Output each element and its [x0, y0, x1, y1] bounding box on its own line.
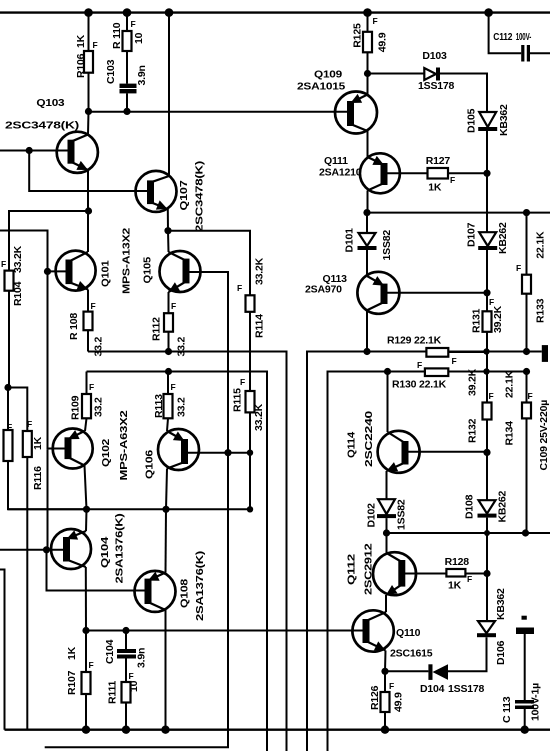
- wire Q105 collector: [167, 231, 170, 252]
- resistor R107 1K: [66, 631, 94, 730]
- resistor R134 22.1K: [504, 370, 533, 533]
- node junction Q104 collector / R107: [82, 627, 89, 634]
- wire Q107 emitter node to R114: [168, 231, 250, 296]
- resistor R129 22.1K: [387, 335, 487, 367]
- node junction Q114 collector on line D: [384, 368, 391, 375]
- svg-text:100V-: 100V-: [516, 32, 532, 43]
- wire top supply rail: [0, 11, 550, 13]
- capacitor C109 25V-220u plate: [538, 345, 550, 470]
- wire D102 node line to right edge: [387, 532, 550, 534]
- node junction rail/Q107 collector column: [165, 8, 174, 17]
- resistor R106 1K: [75, 13, 98, 112]
- svg-text:2SC2240: 2SC2240: [363, 411, 375, 467]
- resistor unlabeled fusible: [4, 388, 13, 462]
- svg-text:R104: R104: [12, 281, 24, 306]
- wire D105 node to D107: [486, 173, 488, 232]
- svg-text:Q105: Q105: [142, 257, 154, 284]
- resistor R130 22.1K: [392, 360, 448, 391]
- wire base column Q102-Q104: [47, 449, 49, 550]
- capacitor C103 3.9n: [105, 51, 148, 111]
- node junction Q107 emitter / Q105 collector: [164, 227, 171, 234]
- svg-text:1K: 1K: [66, 646, 78, 660]
- svg-text:R128: R128: [445, 556, 470, 568]
- svg-text:D106: D106: [495, 640, 507, 665]
- wire Q113 collector to line B: [366, 310, 368, 351]
- wire Q101 base: [48, 270, 67, 272]
- svg-text:F: F: [129, 671, 134, 681]
- transistor Q105 MPS-A13X2 (mirrored): [142, 251, 201, 292]
- wire Q107 emitter: [167, 209, 169, 231]
- node junction R128 / D106 anode: [483, 570, 490, 577]
- wire Q106 base line: [185, 452, 251, 454]
- svg-text:100V-1µ: 100V-1µ: [530, 683, 542, 721]
- svg-text:C112: C112: [493, 32, 513, 43]
- svg-text:F: F: [516, 263, 521, 273]
- node junction Q102 collector / Q104 emitter: [83, 506, 90, 513]
- node junction diode column on D102 line: [484, 530, 490, 536]
- svg-text:1K: 1K: [75, 34, 87, 48]
- wire Q104 emitter: [85, 509, 88, 531]
- svg-text:33.2: 33.2: [176, 397, 188, 417]
- wire R113 bottom to Q106 emitter: [167, 418, 168, 431]
- wire D103 anode line: [368, 73, 425, 75]
- wire Q114 emitter to D102: [386, 471, 388, 499]
- wire R127 to D105/D107 node: [448, 172, 487, 174]
- transistor Q114 2SC2240: [346, 411, 420, 473]
- svg-text:39.2K: 39.2K: [492, 305, 504, 333]
- wire Q111 base to R127: [384, 172, 428, 174]
- svg-text:R126: R126: [369, 685, 381, 710]
- svg-text:F: F: [450, 175, 455, 185]
- node junction rail / C112: [484, 8, 493, 17]
- node junction Q108 collector rail: [161, 726, 169, 734]
- capacitor C104 3.9n: [104, 631, 148, 683]
- svg-text:2SC3478(K): 2SC3478(K): [194, 161, 206, 232]
- svg-text:C104: C104: [104, 639, 116, 664]
- svg-text:R129 22.1K: R129 22.1K: [387, 335, 442, 347]
- wire mirror line A (R108/R112 bottoms): [88, 352, 287, 751]
- wire Q101 emitter to R108: [88, 290, 96, 312]
- wire Q105 base corner: [186, 271, 189, 273]
- resistor R104: [1, 245, 24, 387]
- capacitor C113 100V-1u: [501, 616, 542, 730]
- node junction Q103 base divider: [26, 147, 33, 154]
- wire D104 cathode line: [385, 670, 428, 672]
- node junction R133 column on line B: [523, 348, 530, 355]
- resistor R131 39.2K: [471, 293, 505, 403]
- svg-text:Q107: Q107: [178, 180, 190, 210]
- wire Q112 emitter to Q110 collector: [385, 595, 387, 612]
- svg-text:49.9: 49.9: [377, 32, 389, 52]
- svg-text:MPS-A13X2: MPS-A13X2: [121, 228, 133, 294]
- svg-text:39.2K: 39.2K: [467, 368, 479, 396]
- svg-text:2SA1015: 2SA1015: [297, 81, 345, 93]
- svg-text:F: F: [452, 356, 457, 366]
- resistor R113 33.2: [153, 372, 188, 419]
- wire Q102 base: [48, 448, 66, 450]
- svg-text:KB362: KB362: [495, 588, 507, 620]
- svg-text:2SC1615: 2SC1615: [390, 648, 433, 660]
- node junction R106/C103/Q103 collector: [85, 108, 92, 115]
- wire second bottom line: [45, 272, 228, 747]
- svg-text:F: F: [237, 283, 242, 293]
- svg-text:10: 10: [128, 680, 140, 692]
- svg-text:F: F: [417, 360, 422, 370]
- resistor R126 49.9: [369, 671, 405, 729]
- svg-text:R113: R113: [153, 394, 165, 418]
- svg-text:F: F: [489, 391, 494, 401]
- wire left vertical to bottom rail: [0, 570, 5, 730]
- svg-text:2SA970: 2SA970: [305, 284, 342, 296]
- diode D104 1SS178: [420, 664, 485, 695]
- resistor R108 33.2: [68, 312, 105, 357]
- svg-text:R125: R125: [352, 23, 364, 48]
- svg-text:Q106: Q106: [144, 450, 156, 479]
- svg-text:Q114: Q114: [346, 432, 358, 458]
- svg-text:Q109: Q109: [314, 69, 342, 81]
- svg-text:C109: C109: [538, 446, 550, 471]
- wire Q106 collector: [166, 469, 167, 510]
- resistor R133 22.1K: [516, 213, 547, 352]
- svg-text:F: F: [373, 16, 378, 26]
- svg-text:R107: R107: [66, 670, 78, 695]
- transistor Q102 MPS-A63X2: [53, 410, 130, 480]
- wire Q107 collector column: [168, 13, 170, 176]
- svg-text:49.9: 49.9: [393, 692, 405, 712]
- svg-text:F: F: [467, 574, 472, 584]
- node junction C113 bottom rail: [521, 726, 529, 734]
- resistor R114 33.2K: [237, 257, 266, 391]
- svg-text:1SS178: 1SS178: [448, 683, 485, 695]
- diode D108 KB262: [464, 452, 509, 573]
- wire Q109 collector to Q111: [367, 131, 369, 157]
- wire left edge input Q104 base: [0, 549, 64, 551]
- resistor R112 33.2: [151, 313, 188, 356]
- node junction output line / R133: [523, 209, 530, 216]
- wire D106 cathode to D104: [448, 637, 487, 671]
- svg-text:R115: R115: [232, 388, 244, 412]
- transistor Q113 2SA970: [305, 272, 399, 314]
- transistor Q111 2SA1210: [319, 153, 400, 193]
- svg-text:33.2: 33.2: [93, 337, 105, 357]
- svg-text:33.2K: 33.2K: [254, 257, 266, 285]
- svg-text:KB262: KB262: [497, 490, 509, 522]
- svg-text:F: F: [89, 382, 94, 392]
- node junction Q101 base: [44, 268, 51, 275]
- node junction Q103 emitter / R104: [85, 207, 92, 214]
- wire Q103 collector: [87, 111, 90, 134]
- svg-text:F: F: [27, 419, 32, 429]
- transistor Q108 2SA1376(K): [135, 551, 207, 621]
- svg-text:D107: D107: [466, 222, 478, 247]
- wire Q103 emitter to Q101: [87, 170, 89, 252]
- svg-text:Q102: Q102: [100, 439, 112, 467]
- wire bottom rail: [5, 729, 550, 731]
- node junction Q113 collector on line B: [363, 348, 370, 355]
- wire R116 top corner: [8, 388, 27, 432]
- node junction C103 bottom: [123, 108, 130, 115]
- wire Q103 base input from left edge: [0, 150, 68, 152]
- svg-text:F: F: [171, 301, 176, 311]
- svg-text:R131: R131: [471, 308, 483, 333]
- svg-text:10: 10: [133, 32, 145, 44]
- svg-text:25V-220µ: 25V-220µ: [538, 400, 550, 444]
- svg-text:D103: D103: [422, 50, 447, 62]
- svg-text:33.2K: 33.2K: [12, 245, 24, 273]
- transistor Q104 2SA1376(K): [51, 514, 126, 584]
- wire Q111 collector: [367, 191, 369, 213]
- wire feedback line D: [328, 372, 527, 751]
- svg-text:F: F: [89, 660, 94, 670]
- svg-text:Q112: Q112: [345, 554, 357, 585]
- svg-text:R 108: R 108: [68, 313, 80, 340]
- svg-text:D105: D105: [466, 108, 478, 133]
- svg-text:F: F: [389, 681, 394, 691]
- resistor R115 33.2K: [232, 377, 266, 509]
- diode D105 KB362: [466, 104, 511, 173]
- transistor Q110 2SC1615: [352, 610, 432, 659]
- node junction Q106 collector / Q108 emitter: [162, 506, 169, 513]
- svg-text:R130 22.1K: R130 22.1K: [392, 379, 447, 391]
- svg-text:22.1K: 22.1K: [535, 231, 547, 259]
- wire left edge input to base column: [0, 231, 48, 272]
- transistor Q112 2SC2912: [345, 543, 416, 595]
- svg-text:Q111: Q111: [324, 155, 348, 167]
- svg-text:2SA1376(K): 2SA1376(K): [194, 551, 206, 621]
- wire feedback line B: [307, 352, 542, 751]
- node junction R127 / D105 cathode: [483, 170, 490, 177]
- svg-text:MPS-A63X2: MPS-A63X2: [118, 410, 130, 480]
- diode D106 KB362: [477, 574, 507, 666]
- svg-text:Q101: Q101: [100, 260, 112, 287]
- wire Q113 base to D107 node: [384, 292, 487, 294]
- node junction Q105/Q106 base column at Q106 base: [224, 449, 231, 456]
- wire base column to Q108 base: [47, 550, 145, 591]
- node junction R132 / Q114 base: [483, 449, 490, 456]
- resistor R132 39.2K: [467, 368, 494, 452]
- svg-text:F: F: [1, 259, 6, 269]
- svg-text:F: F: [131, 19, 136, 29]
- wire Q104 collector: [85, 567, 87, 631]
- wire Q103 base to Q107 base: [29, 151, 147, 192]
- svg-text:F: F: [93, 40, 98, 50]
- svg-text:3.9n: 3.9n: [136, 65, 148, 85]
- svg-text:1SS82: 1SS82: [396, 499, 408, 530]
- resistor R116 1K: [7, 419, 44, 730]
- svg-text:3.9n: 3.9n: [136, 648, 148, 668]
- wire Q108 collector to bottom rail: [165, 610, 167, 730]
- svg-text:D101: D101: [344, 228, 356, 253]
- wire Q112 base to R128: [402, 573, 447, 575]
- svg-text:R106: R106: [75, 53, 87, 78]
- transistor Q109 2SA1015: [297, 69, 377, 134]
- node junction rail/R125: [363, 8, 372, 17]
- svg-text:F: F: [528, 391, 533, 401]
- node junction R111 bottom rail: [122, 726, 130, 734]
- resistor R125 49.9: [352, 13, 389, 74]
- wire R104 top to Q103 emitter node: [9, 211, 89, 271]
- wire bias line to Q110 base: [86, 630, 366, 632]
- svg-text:33.2K: 33.2K: [253, 403, 265, 431]
- node junction R107 bottom rail: [82, 726, 90, 734]
- svg-text:F: F: [171, 382, 176, 392]
- svg-text:R116: R116: [32, 466, 44, 490]
- svg-text:1K: 1K: [448, 580, 462, 592]
- svg-text:C103: C103: [105, 59, 117, 84]
- svg-text:2SA1210: 2SA1210: [319, 167, 362, 179]
- svg-text:1SS178: 1SS178: [418, 80, 455, 92]
- wire Q114 base to R132: [405, 451, 487, 453]
- svg-text:1K: 1K: [32, 436, 44, 450]
- node junction Q110 emitter / D104 / R126: [381, 668, 388, 675]
- svg-text:33.2: 33.2: [176, 337, 188, 357]
- transistor Q106 MPS-A63X2 (mirrored): [144, 429, 200, 479]
- svg-text:F: F: [489, 297, 494, 307]
- node junction R134 bottom on D102 line: [522, 529, 529, 536]
- capacitor C112 100V: [489, 13, 550, 62]
- svg-text:22.1K: 22.1K: [504, 370, 516, 398]
- svg-text:C 113: C 113: [501, 696, 513, 723]
- svg-text:1SS82: 1SS82: [381, 230, 393, 261]
- svg-text:D104: D104: [420, 683, 445, 695]
- node junction R104 bottom / R116 top: [4, 384, 11, 391]
- diode D102 1SS82: [366, 499, 408, 533]
- node junction Q111 collector / output line: [363, 209, 370, 216]
- node junction C104 top: [122, 627, 129, 634]
- node junction D102 cathode: [383, 529, 390, 536]
- svg-text:2SA1376(K): 2SA1376(K): [114, 514, 126, 584]
- node junction R126 bottom rail: [381, 726, 389, 734]
- wire mirror line C (R109/R113 tops): [87, 372, 268, 751]
- svg-text:R109: R109: [70, 395, 82, 420]
- node junction Q104 base: [43, 546, 50, 553]
- node junction rail/R106: [84, 8, 93, 17]
- svg-text:D102: D102: [366, 503, 378, 528]
- node junction rail/R110: [123, 8, 132, 17]
- wire unlabeled resistor to mirror line: [8, 461, 87, 509]
- node junction R115 column / Q106 base line: [247, 450, 253, 456]
- svg-text:1K: 1K: [428, 182, 442, 194]
- wire Q102 collector: [85, 466, 87, 510]
- svg-text:R132: R132: [467, 418, 479, 443]
- wire Q110 emitter: [384, 651, 387, 672]
- svg-text:Q108: Q108: [179, 579, 191, 608]
- svg-text:R127: R127: [426, 155, 451, 167]
- wire base column Q101-Q102: [47, 271, 49, 449]
- svg-text:KB362: KB362: [498, 104, 510, 136]
- node junction R131 column on line B: [483, 348, 489, 354]
- svg-text:2SC3478(K): 2SC3478(K): [5, 120, 79, 132]
- wire R106/C103 node to Q109 base: [89, 111, 349, 113]
- diode D101 1SS82: [344, 213, 394, 261]
- wire Q108 emitter: [165, 509, 168, 572]
- node junction R133/R134 on line D: [523, 368, 530, 375]
- resistor R109 33.2: [70, 372, 105, 421]
- transistor Q103 2SC3478(K): [5, 97, 98, 173]
- svg-text:R134: R134: [504, 421, 516, 446]
- resistor R111 10: [107, 671, 141, 730]
- svg-text:Q110: Q110: [396, 627, 421, 639]
- node junction Q113 base / R131 top: [483, 289, 490, 296]
- wire D101 cathode to Q113: [366, 250, 368, 276]
- transistor Q101 MPS-A13X2: [56, 228, 133, 294]
- svg-text:33.2: 33.2: [93, 397, 105, 417]
- transistor Q107 2SC3478(K): [136, 161, 206, 232]
- node junction R115 column / mirror line: [247, 506, 253, 512]
- node junction R112 bottom on line A: [165, 348, 172, 355]
- resistor R110 10: [111, 13, 145, 51]
- wire VAS output line to right edge: [367, 212, 550, 214]
- svg-text:KB262: KB262: [497, 222, 509, 254]
- svg-text:R111: R111: [107, 680, 119, 704]
- svg-text:Q104: Q104: [99, 537, 111, 568]
- resistor R127 1K: [426, 155, 456, 194]
- wire R109 bottom to Q102 emitter: [85, 418, 87, 431]
- svg-text:F: F: [240, 377, 245, 387]
- wire Q109 emitter: [367, 74, 369, 95]
- node junction R132 column on line D: [483, 368, 489, 374]
- node junction R125 bottom / D103 anode: [364, 70, 371, 77]
- svg-text:R 110: R 110: [111, 22, 123, 49]
- resistor R128 1K: [445, 556, 473, 592]
- svg-text:Q103: Q103: [36, 97, 64, 109]
- svg-text:R112: R112: [151, 317, 163, 341]
- wire Q112 collector: [386, 533, 388, 553]
- svg-text:D108: D108: [464, 494, 476, 519]
- svg-text:2SC2912: 2SC2912: [362, 543, 374, 595]
- wire D103 cathode to D105: [440, 74, 487, 113]
- wire R128 to diode column: [465, 573, 487, 575]
- diode D103 1SS178: [418, 50, 455, 92]
- svg-text:F: F: [91, 301, 96, 311]
- diode D107 KB262: [466, 222, 510, 293]
- wire collector mirror line: [8, 508, 250, 510]
- node junction R113 top on line C: [165, 368, 172, 375]
- svg-text:R114: R114: [254, 314, 266, 338]
- wire Q105 emitter to R112: [169, 292, 177, 313]
- svg-text:R133: R133: [535, 298, 547, 323]
- wire Q114 collector: [387, 372, 389, 433]
